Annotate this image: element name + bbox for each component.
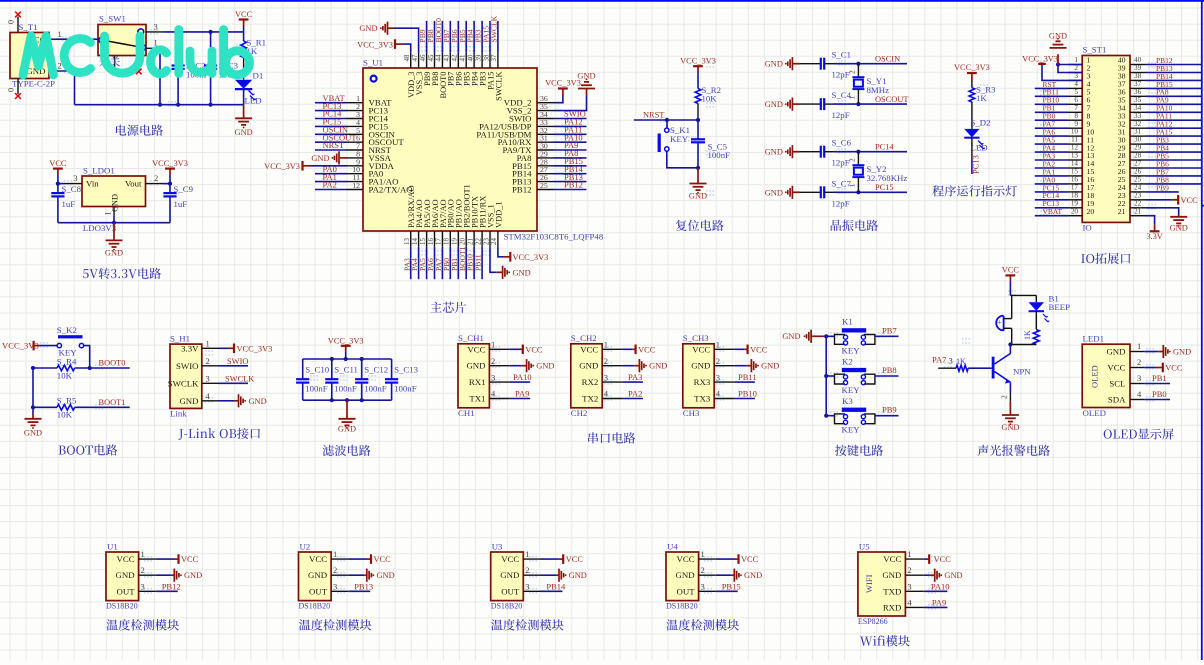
svg-text:PA2/TX/AO: PA2/TX/AO — [369, 185, 413, 195]
S_LDO1 pin Vin name — [86, 179, 99, 189]
OLED LED1 designator — [1083, 334, 1105, 344]
capacitor S_C3 — [204, 32, 217, 105]
svg-text:44: 44 — [436, 54, 443, 61]
U3 pin 1 name — [501, 554, 519, 564]
MCU pin 27 lead — [537, 173, 554, 175]
MCU pin 22 name PB11/RX — [479, 196, 488, 228]
svg-text:S_D2: S_D2 — [971, 118, 991, 128]
svg-text:100nF: 100nF — [305, 384, 328, 394]
svg-text:S_T1: S_T1 — [19, 22, 38, 32]
svg-text:GND: GND — [105, 249, 123, 258]
svg-text:1K: 1K — [976, 93, 987, 103]
wire SW1 pin1 down to rail — [154, 48, 160, 104]
svg-text:2: 2 — [333, 565, 337, 575]
wire net PA12 at MCU pin 33 — [554, 125, 587, 127]
filter top rail — [303, 357, 392, 361]
header pin 9 name — [1087, 119, 1091, 128]
resistor S_R2 — [695, 89, 701, 121]
U3 pin 2 name — [500, 570, 519, 580]
no-connect X on S_T1 bottom pin — [15, 93, 21, 99]
U1 pin 2 lead — [139, 574, 156, 576]
MCU pin 9 number — [356, 157, 360, 166]
capacitor S_C2 value — [186, 69, 209, 79]
header pin 35 number — [1134, 96, 1142, 104]
svg-text:12pF: 12pF — [832, 110, 850, 120]
S_CH1 pin 3 number — [491, 372, 495, 382]
wire net PB5 at header pin 28 — [1146, 159, 1202, 161]
power port VCC_3V3 of filter — [328, 336, 364, 359]
wire net PA5 at MCU pin 15 — [426, 247, 428, 279]
svg-text:STM32F103C8T6_LQFP48: STM32F103C8T6_LQFP48 — [504, 232, 604, 242]
wire net PB7 at header pin 26 — [1146, 175, 1202, 177]
alarm top rail — [1010, 295, 1036, 318]
junction bottom rail at C2 — [176, 103, 180, 107]
S_CH3 pin 2 number — [716, 356, 720, 366]
svg-text:VCC: VCC — [501, 554, 519, 564]
svg-text:5: 5 — [1074, 88, 1078, 96]
svg-text:1: 1 — [104, 212, 113, 216]
S_CH2 pin 4 name — [582, 394, 598, 404]
wire collector — [1009, 345, 1011, 354]
net label PC15 at header — [1043, 183, 1060, 192]
svg-text:RX2: RX2 — [582, 377, 599, 387]
keys ground bus — [824, 334, 828, 418]
U5 pin 3 name — [883, 586, 901, 596]
switch S_SW1 pin 4 down — [138, 56, 140, 71]
J-Link pin 2 lead — [202, 365, 219, 367]
MCU pin 3 name PC14 — [369, 114, 389, 124]
header pin 28 lead — [1130, 159, 1146, 161]
S_CH2 pin 2 name — [579, 361, 598, 371]
header pin 38 number — [1134, 72, 1142, 80]
net label PC14 at header — [1043, 191, 1060, 200]
wire MCU pin 48 to VCC_3V3 — [396, 44, 411, 53]
key K1 actuator bar — [842, 328, 866, 332]
svg-text:VCC: VCC — [525, 345, 543, 354]
MCU pin 2 name PC13 — [369, 106, 389, 116]
power ground feeding S_C6 — [765, 145, 800, 158]
MCU pin 6 lead — [347, 141, 364, 143]
MCU pin 34 name SWIO — [509, 114, 531, 124]
net label PB1 at header — [1043, 104, 1056, 113]
svg-text:3: 3 — [525, 581, 529, 591]
resistor 1K of alarm — [1023, 311, 1039, 344]
MCU pin 38 name PA15 — [486, 72, 495, 90]
svg-text:16: 16 — [1071, 176, 1079, 184]
header pin 10 name — [1087, 127, 1095, 136]
svg-text:VCC_3V3: VCC_3V3 — [680, 57, 716, 66]
header pin 32 lead — [1130, 127, 1146, 129]
MCU pin 17 number — [436, 238, 443, 245]
net label PB12 at header — [1156, 56, 1173, 65]
module U3 designator — [492, 542, 503, 552]
label BEEP — [1049, 302, 1071, 312]
header pin 21 lead — [1130, 215, 1146, 217]
svg-text:PB12: PB12 — [162, 581, 181, 591]
MCU pin 46 name PB9 — [423, 72, 432, 86]
wire net PB11 at header pin 5 — [1035, 95, 1069, 97]
no-connect X on S_T1 top pin — [15, 12, 21, 18]
U3 pin 2 lead — [523, 574, 540, 576]
svg-text:GND: GND — [116, 570, 135, 580]
svg-text:GND: GND — [359, 24, 377, 33]
net label PB7 at keys — [882, 325, 897, 335]
LED B1 of alarm — [1029, 295, 1050, 322]
junction on top rail at C3 — [209, 30, 213, 34]
header pin 4 name — [1087, 80, 1091, 89]
net label PA1 — [323, 172, 337, 182]
net label PB10 at CH3 — [738, 389, 757, 399]
wire emitter to ground — [1000, 382, 1011, 401]
S_CH2 pin 1 lead — [602, 348, 622, 350]
U3 pin 1 number — [525, 549, 529, 559]
MCU pin 29 number — [540, 149, 548, 158]
MCU pin 22 number — [475, 238, 482, 245]
svg-text:2: 2 — [1137, 357, 1141, 367]
svg-text:1K: 1K — [956, 357, 966, 366]
U3 pin 2 number — [525, 565, 529, 575]
svg-text:10: 10 — [1071, 128, 1079, 136]
svg-text:10K: 10K — [57, 370, 73, 380]
svg-text:12: 12 — [1071, 144, 1079, 152]
MCU pin 37 name SWCLK — [494, 72, 503, 101]
svg-text:RX3: RX3 — [694, 377, 711, 387]
svg-text:TX1: TX1 — [469, 394, 485, 404]
MCU pin 43 number — [444, 54, 451, 61]
net label PA10 at U5 — [931, 581, 950, 591]
svg-text:GND: GND — [765, 100, 783, 109]
svg-text:2: 2 — [1000, 395, 1009, 399]
resistor S_R5 value — [57, 410, 73, 420]
net label PB8 — [426, 29, 435, 42]
J-Link pin 3 lead — [202, 382, 219, 384]
net label PB5 — [458, 29, 467, 42]
svg-text:0: 0 — [7, 88, 16, 92]
svg-text:PA9: PA9 — [932, 597, 946, 607]
svg-text:19: 19 — [1071, 199, 1079, 207]
section title 串口电路 — [588, 432, 635, 443]
wire net PB0 at MCU pin 18 — [449, 247, 451, 279]
power ground at J-Link pin4 — [219, 394, 267, 407]
wire net PB12 at header pin 40 — [1146, 64, 1202, 66]
header S_CH1 box — [458, 344, 489, 408]
key S_K2 designator — [57, 325, 77, 335]
power port 3.3V at header pin 21 — [1146, 216, 1163, 241]
header pin 30 lead — [1130, 143, 1146, 145]
wire net PB14 at MCU pin 27 — [554, 173, 587, 175]
net label PA1 at header — [1043, 167, 1056, 176]
svg-text:PA7: PA7 — [932, 355, 946, 365]
MCU pin 2 lead — [347, 110, 364, 112]
U5 pin 1 name — [883, 554, 901, 564]
U2 pin 1 lead — [331, 558, 348, 560]
svg-text:30: 30 — [1134, 136, 1142, 144]
svg-text:1: 1 — [58, 29, 62, 39]
MCU pin 9 name VDDA — [369, 161, 395, 171]
power port VCC at U4 — [716, 554, 759, 564]
capacitor S_C11 designator — [334, 365, 358, 375]
svg-text:11: 11 — [1071, 136, 1078, 144]
svg-text:GND: GND — [744, 571, 762, 580]
MCU pin 16 number — [428, 238, 435, 245]
MCU pin 42 number — [452, 54, 459, 61]
wire NRST — [634, 118, 700, 122]
MCU pin 12 number — [352, 181, 360, 190]
MCU pin 18 lead — [449, 231, 451, 247]
MCU pin 34 lead — [537, 118, 554, 120]
header pin 39 number — [1134, 64, 1142, 72]
header pin 35 name — [1118, 96, 1126, 105]
MCU pin 8 lead — [347, 157, 364, 159]
capacitor S_C7 value — [832, 198, 850, 208]
power ground at U4 — [716, 569, 762, 582]
svg-text:GND: GND — [761, 362, 779, 371]
header pin 18 name — [1087, 191, 1095, 200]
MCU pin 18 name PB0/AO — [447, 199, 456, 228]
MCU pin 47 name VSS_3 — [415, 72, 424, 96]
J-Link pin 3 name — [168, 378, 199, 388]
net label PB0 — [442, 258, 451, 271]
svg-text:GND: GND — [308, 570, 327, 580]
header S_ST1 box — [1082, 56, 1130, 223]
net label PA3 at header — [1043, 151, 1056, 160]
svg-text:3: 3 — [73, 173, 77, 183]
header pin 1 name — [1087, 56, 1091, 65]
svg-text:33: 33 — [1134, 112, 1142, 120]
svg-text:S_LDO1: S_LDO1 — [83, 166, 115, 176]
wire PB0 at OLED — [1144, 399, 1170, 401]
net label PB9 — [418, 29, 427, 42]
net label OSCIN — [323, 125, 349, 135]
J-Link pin 4 lead — [202, 400, 219, 402]
svg-text:1: 1 — [848, 184, 857, 188]
wire bus to key K1 — [826, 335, 834, 337]
net label PB15 — [564, 156, 583, 166]
S_CH1 pin 4 number — [491, 389, 496, 399]
capacitor S_C3 designator — [219, 60, 239, 70]
power port VCC_3V3 at MCU pin 24 — [510, 252, 548, 262]
svg-text:PB11: PB11 — [738, 372, 757, 382]
header pin 15 number — [1071, 168, 1079, 176]
svg-text:OLED: OLED — [1083, 408, 1106, 418]
header pin 3 lead — [1069, 79, 1083, 81]
header pin 34 name — [1118, 104, 1126, 113]
svg-text:GND: GND — [579, 361, 598, 371]
wire PA10 at CH1 — [510, 381, 530, 383]
net label PA6 at header — [1043, 128, 1056, 137]
module U1 title — [106, 619, 178, 630]
power port VCC_3V3 at MCU pin 36 — [545, 78, 581, 88]
MCU pin 13 number — [404, 238, 411, 245]
header pin 16 name — [1087, 175, 1095, 184]
MCU pin 33 number — [540, 118, 548, 127]
MCU pin 7 name NRST — [369, 145, 392, 155]
svg-text:2: 2 — [154, 173, 158, 183]
MCU pin 45 name PB8 — [431, 72, 440, 86]
svg-text:DS18B20: DS18B20 — [666, 602, 698, 611]
svg-text:VCC: VCC — [1181, 196, 1199, 205]
header pin 6 lead — [1069, 103, 1083, 105]
S_CH1 pin 4 name — [469, 394, 485, 404]
power port VCC_3V3 at MCU pin 48 — [357, 39, 395, 49]
wire PA9 at CH1 — [510, 398, 530, 400]
svg-text:Vout: Vout — [125, 179, 142, 189]
svg-text:PB9: PB9 — [1156, 183, 1169, 192]
MCU pin 40 number — [467, 54, 474, 61]
capacitor S_C9 — [163, 184, 176, 223]
net label PA12 at header — [1156, 120, 1173, 129]
svg-text:GND: GND — [466, 361, 485, 371]
power port VCC at S_CH2 — [623, 345, 656, 355]
capacitor S_C1 designator — [832, 50, 852, 60]
header pin 30 number — [1134, 136, 1142, 144]
U5 pin 4 lead — [905, 606, 923, 608]
header pin 14 name — [1087, 159, 1095, 168]
wire PA10 at U5 — [924, 590, 948, 592]
wire net VBAT at MCU pin 1 — [315, 102, 347, 104]
net label PC15 — [323, 117, 342, 127]
svg-text:35: 35 — [1134, 96, 1142, 104]
key K1 label KEY — [842, 345, 861, 355]
MCU pin 6 name OSCOUT — [369, 137, 405, 147]
net label PB4 at header — [1156, 144, 1169, 153]
net label PC14 at crystal — [875, 143, 894, 152]
header pin 24 number — [1134, 184, 1142, 192]
net label PA15 — [482, 26, 491, 43]
resistor 1K at base — [938, 365, 992, 371]
header pin 29 number — [1134, 144, 1142, 152]
header pin 36 lead — [1130, 95, 1146, 97]
svg-text:OUT: OUT — [501, 586, 520, 596]
power port VCC at OLED pin2 — [1144, 363, 1183, 373]
wire net SWIO at MCU pin 34 — [554, 118, 587, 120]
net label PA10 — [564, 132, 583, 142]
net label BOOT0 — [434, 18, 443, 43]
svg-text:VCC_3V3: VCC_3V3 — [237, 344, 273, 353]
wire PC14 — [834, 150, 908, 154]
header pin 24 name — [1118, 183, 1126, 192]
net label PB0 at header — [1043, 112, 1056, 121]
svg-text:23: 23 — [1134, 191, 1142, 199]
net label PB7 — [442, 29, 451, 42]
header pin 37 lead — [1130, 87, 1146, 89]
svg-text:OSCIN: OSCIN — [875, 55, 900, 64]
svg-text:1: 1 — [907, 549, 911, 559]
net label NRST — [323, 140, 346, 150]
svg-text:38: 38 — [1134, 72, 1142, 80]
MCU pin 3 number — [356, 110, 360, 119]
svg-text:1: 1 — [206, 339, 210, 349]
header pin 17 name — [1087, 183, 1095, 192]
U1 pin 1 number — [141, 549, 145, 559]
capacitor S_C12 body — [355, 359, 368, 400]
LED D1 designator — [253, 71, 264, 81]
svg-text:KEY: KEY — [842, 425, 861, 435]
svg-text:37: 37 — [1134, 80, 1142, 88]
svg-text:20: 20 — [1071, 207, 1079, 215]
MCU pin 31 lead — [537, 141, 554, 143]
power port VCC at U5 — [924, 554, 952, 564]
wire net PB14 at header pin 38 — [1146, 79, 1202, 81]
filter bottom rail — [303, 398, 392, 402]
wire net PC14 at MCU pin 3 — [315, 118, 347, 120]
section title 滤波电路 — [323, 445, 371, 456]
header pin 16 number — [1071, 176, 1079, 184]
MCU pin 38 lead — [489, 53, 491, 68]
wire net PB6 at header pin 27 — [1146, 167, 1202, 169]
header pin 6 number — [1074, 96, 1078, 104]
header S_CH3 designator — [683, 333, 710, 343]
wire net PA2 at MCU pin 12 — [315, 189, 347, 191]
capacitor S_C4 — [800, 98, 834, 110]
J-Link pin 2 name — [176, 361, 198, 371]
MCU pin 43 name PB7 — [447, 72, 456, 86]
svg-text:NPN: NPN — [1013, 367, 1031, 377]
net label VBAT — [323, 93, 346, 103]
svg-text:12pF: 12pF — [832, 198, 850, 208]
svg-text:TX3: TX3 — [694, 394, 711, 404]
U5 pin 2 number — [907, 565, 911, 575]
MCU pin 5 number — [356, 126, 360, 135]
svg-text:8MHz: 8MHz — [867, 85, 890, 95]
MCU pin 19 name PB1/AO — [455, 199, 464, 228]
svg-text:GND: GND — [1049, 32, 1067, 41]
key S_K2 actuator bar — [58, 335, 83, 338]
key K2 right contact — [861, 374, 875, 385]
MCU pin 48 number — [404, 54, 411, 61]
svg-text:SDA: SDA — [1108, 395, 1126, 405]
capacitor S_C7 designator — [832, 178, 852, 188]
svg-text:3: 3 — [491, 372, 495, 382]
svg-text:100nF: 100nF — [334, 384, 357, 394]
net label PA2 at CH2 — [628, 389, 642, 399]
power ground at header pins 1-2 — [1049, 32, 1082, 73]
wire Vout to VCC_3V3 — [162, 182, 172, 186]
power ground at MCU pin 8 VSSA — [311, 151, 346, 164]
wire net PA3 at header pin 13 — [1035, 159, 1069, 161]
wire MCU pin 23 to GND — [490, 247, 503, 272]
svg-text:VCC_3V3: VCC_3V3 — [954, 63, 990, 72]
LED D2 — [964, 129, 985, 150]
svg-text:31: 31 — [1134, 128, 1142, 136]
MCU pin 12 lead — [347, 189, 364, 191]
wire bus to key K3 — [826, 415, 834, 417]
svg-text:36: 36 — [1134, 88, 1142, 96]
svg-text:GND: GND — [882, 570, 901, 580]
resistor S_R4 designator — [57, 356, 77, 366]
svg-text:SWCLK: SWCLK — [494, 72, 503, 101]
svg-text:PA2: PA2 — [323, 180, 337, 190]
header pin 19 name — [1087, 199, 1095, 208]
svg-text:39: 39 — [1134, 64, 1142, 72]
crystal S_Y2 designator — [867, 164, 887, 174]
header pin 18 lead — [1069, 199, 1083, 201]
net label PA2 — [323, 180, 337, 190]
svg-text:2: 2 — [525, 565, 529, 575]
svg-text:BOOT0: BOOT0 — [99, 359, 126, 368]
power port VCC — [235, 10, 253, 32]
net label PA7 at header — [1043, 120, 1056, 129]
net label PB10 at header — [1043, 96, 1060, 105]
base pin number 3 — [949, 356, 953, 366]
svg-text:OUT: OUT — [677, 586, 696, 596]
capacitor S_C5 — [691, 120, 705, 170]
svg-text:PB12: PB12 — [564, 180, 583, 190]
capacitor S_C6 value — [832, 158, 850, 168]
MCU pin 38 number — [483, 54, 490, 61]
wire VCC top rail — [163, 31, 244, 33]
svg-text:PA3: PA3 — [628, 372, 642, 382]
